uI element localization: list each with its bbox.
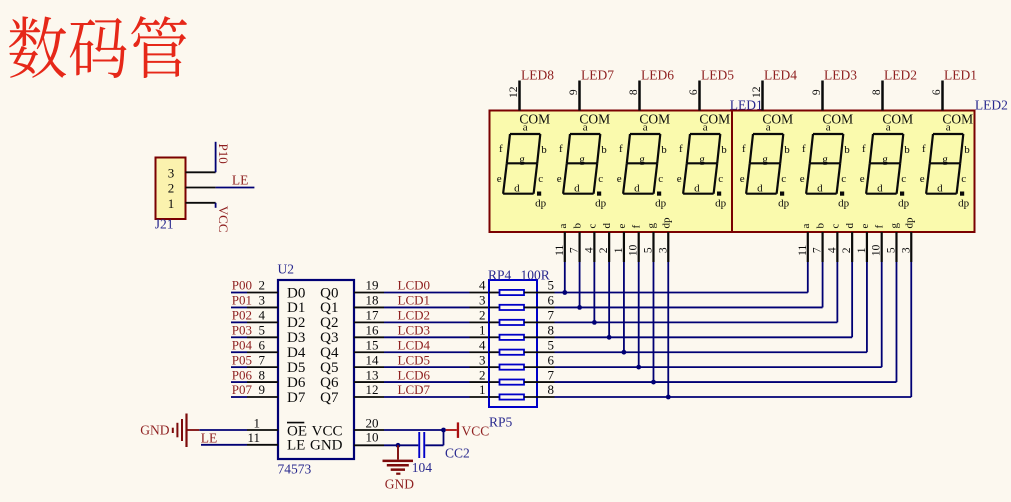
svg-text:Q3: Q3 [320, 330, 338, 346]
svg-text:LCD0: LCD0 [398, 278, 431, 293]
svg-text:GND: GND [310, 437, 343, 453]
junction segment d [607, 335, 612, 340]
title text 数码管 [9, 16, 187, 78]
7-seg digit LED3 [800, 68, 857, 210]
svg-text:17: 17 [366, 308, 380, 323]
display module LED2 (4-digit 7-seg block) [732, 111, 975, 233]
junction VCC node [441, 428, 446, 433]
svg-text:15: 15 [366, 337, 379, 352]
wire bus segment dp horizontal [555, 396, 912, 398]
svg-text:e: e [616, 224, 628, 229]
svg-text:e: e [859, 224, 871, 229]
svg-text:d: d [844, 223, 856, 229]
junction segment f [636, 365, 641, 370]
svg-text:D6: D6 [287, 375, 306, 391]
svg-text:7: 7 [548, 308, 555, 323]
svg-text:D7: D7 [287, 390, 306, 406]
wire LE [216, 187, 255, 189]
segment pin a of box 1 (pin 11) [554, 224, 569, 263]
svg-text:3: 3 [168, 165, 175, 180]
svg-text:e: e [677, 173, 682, 185]
svg-text:b: b [601, 144, 607, 156]
svg-text:d: d [817, 183, 823, 195]
svg-text:16: 16 [366, 322, 380, 337]
svg-text:2: 2 [259, 278, 266, 293]
svg-text:7: 7 [812, 247, 824, 253]
svg-text:LCD1: LCD1 [398, 293, 431, 308]
svg-text:11: 11 [797, 245, 809, 256]
power ground GND (left) [140, 414, 199, 448]
svg-text:d: d [757, 183, 763, 195]
svg-text:5: 5 [259, 322, 266, 337]
svg-text:d: d [601, 223, 613, 229]
svg-text:4: 4 [479, 337, 486, 352]
wire segment dp box1 vertical [667, 262, 669, 397]
svg-text:LED2: LED2 [975, 98, 1008, 113]
svg-text:9: 9 [568, 89, 580, 95]
svg-text:5: 5 [885, 247, 897, 253]
svg-text:a: a [766, 122, 771, 134]
svg-text:LED6: LED6 [641, 68, 674, 83]
svg-text:10: 10 [871, 244, 883, 256]
resistor RP4 element 1 [489, 278, 555, 295]
resistor RP4 element 5 [489, 337, 555, 354]
svg-text:f: f [559, 143, 563, 155]
svg-text:c: c [901, 173, 906, 185]
svg-text:dp: dp [903, 217, 915, 229]
pin D1 (pin 3) with net label P01 [231, 293, 278, 308]
svg-text:VCC: VCC [462, 424, 490, 439]
wire segment g box1 vertical [652, 262, 654, 382]
svg-text:14: 14 [366, 352, 380, 367]
svg-text:LED3: LED3 [824, 68, 857, 83]
svg-text:dp: dp [535, 197, 547, 209]
svg-text:a: a [583, 122, 588, 134]
svg-text:b: b [844, 144, 850, 156]
svg-text:GND: GND [140, 423, 169, 438]
svg-text:LED5: LED5 [701, 68, 734, 83]
svg-text:f: f [802, 143, 806, 155]
svg-text:2: 2 [168, 181, 175, 196]
wire segment b box2 vertical [822, 262, 824, 307]
svg-text:P10: P10 [216, 144, 231, 164]
svg-text:10: 10 [628, 244, 640, 256]
wire bus segment c horizontal [555, 321, 838, 323]
svg-text:a: a [826, 122, 831, 134]
svg-text:Q4: Q4 [320, 345, 339, 361]
svg-text:dp: dp [838, 197, 850, 209]
segment pin e of box 1 (pin 1) [613, 224, 628, 263]
svg-text:104: 104 [412, 460, 433, 475]
svg-text:P04: P04 [232, 337, 253, 352]
svg-text:LED1: LED1 [730, 98, 763, 113]
segment pin dp of box 2 (pin 3) [900, 217, 915, 262]
pin Q4 (pin 15) wire to RP4, net LCD4 [354, 337, 489, 352]
wire bus segment d horizontal [555, 336, 853, 338]
svg-text:c: c [658, 173, 663, 185]
net label VCC [216, 206, 231, 233]
svg-text:3: 3 [259, 293, 266, 308]
svg-text:LED1: LED1 [944, 68, 977, 83]
7-seg digit LED4 [740, 68, 797, 210]
svg-text:11: 11 [554, 245, 566, 256]
svg-text:74573: 74573 [278, 462, 312, 477]
svg-text:P00: P00 [232, 278, 252, 293]
resistor RP4 element 8 [489, 382, 555, 399]
svg-text:4: 4 [826, 247, 838, 253]
svg-text:2: 2 [841, 247, 853, 253]
svg-text:6: 6 [259, 337, 266, 352]
svg-text:1: 1 [479, 382, 486, 397]
svg-text:b: b [661, 144, 667, 156]
svg-text:e: e [740, 173, 745, 185]
svg-text:3: 3 [479, 352, 486, 367]
J21 pin 3 [186, 171, 216, 173]
wire segment c box1 vertical [593, 262, 595, 322]
pin GND (pin 10) [354, 430, 384, 446]
svg-text:b: b [784, 144, 790, 156]
svg-text:8: 8 [871, 89, 883, 95]
svg-text:6: 6 [548, 293, 555, 308]
resistor network RP4 100R outline [488, 268, 550, 430]
svg-text:RP4: RP4 [488, 268, 512, 283]
pin D0 (pin 2) with net label P00 [231, 278, 278, 293]
wire bus segment f horizontal [555, 366, 882, 368]
svg-text:b: b [572, 223, 584, 229]
svg-text:g: g [888, 223, 900, 229]
svg-text:20: 20 [366, 415, 379, 430]
svg-text:VCC: VCC [216, 206, 231, 233]
svg-text:f: f [742, 143, 746, 155]
segment pin dp of box 1 (pin 3) [657, 217, 672, 262]
pin Q0 (pin 19) wire to RP4, net LCD0 [354, 278, 489, 293]
svg-text:D2: D2 [287, 315, 305, 331]
svg-text:a: a [557, 224, 569, 229]
segment pin c of box 2 (pin 4) [826, 224, 841, 263]
svg-text:c: c [829, 224, 841, 229]
J21 pin 2 [186, 187, 216, 189]
junction segment a [562, 290, 567, 295]
net label LE (bottom) [201, 430, 218, 445]
svg-text:4: 4 [259, 308, 266, 323]
wire LE (bottom) [201, 444, 247, 446]
svg-text:a: a [800, 224, 812, 229]
pin VCC (pin 20) [354, 415, 384, 430]
svg-text:e: e [617, 173, 622, 185]
junction segment b [577, 305, 582, 310]
pin Q1 (pin 18) wire to RP4, net LCD1 [354, 293, 489, 308]
svg-text:3: 3 [479, 293, 486, 308]
resistor RP4 element 3 [489, 308, 555, 325]
svg-text:g: g [822, 153, 828, 165]
svg-text:P03: P03 [232, 322, 252, 337]
svg-text:d: d [574, 183, 580, 195]
wire segment c box2 vertical [836, 262, 838, 322]
svg-text:dp: dp [595, 197, 607, 209]
wire segment a box2 vertical [807, 262, 809, 293]
svg-text:e: e [557, 173, 562, 185]
svg-text:Q7: Q7 [320, 390, 339, 406]
7-seg digit LED8 [497, 68, 554, 210]
svg-text:D1: D1 [287, 300, 305, 316]
svg-text:100R: 100R [521, 268, 550, 283]
segment pin f of box 1 (pin 10) [628, 225, 643, 263]
display module LED1 (4-digit 7-seg block) [490, 111, 733, 233]
segment pin b of box 2 (pin 7) [812, 223, 827, 263]
svg-text:P06: P06 [232, 367, 253, 382]
svg-text:e: e [800, 173, 805, 185]
junction segment g [651, 380, 656, 385]
svg-text:P07: P07 [232, 382, 253, 397]
svg-text:9: 9 [259, 382, 266, 397]
svg-text:18: 18 [366, 293, 379, 308]
svg-text:LCD3: LCD3 [398, 322, 431, 337]
svg-text:c: c [586, 224, 598, 229]
svg-text:c: c [718, 173, 723, 185]
svg-text:J21: J21 [155, 217, 174, 232]
net label P10 [216, 144, 231, 164]
segment pin g of box 2 (pin 5) [885, 223, 900, 263]
svg-text:3: 3 [657, 247, 669, 253]
svg-text:c: c [781, 173, 786, 185]
svg-text:12: 12 [366, 382, 379, 397]
wire segment e box2 vertical [866, 262, 868, 352]
svg-text:g: g [579, 153, 585, 165]
wire VCC stub [215, 203, 217, 208]
svg-text:e: e [920, 173, 925, 185]
svg-text:b: b [815, 223, 827, 229]
junction segment c [592, 320, 597, 325]
segment pin d of box 1 (pin 2) [598, 223, 613, 263]
pin Q6 (pin 13) wire to RP4, net LCD6 [354, 367, 489, 382]
wire bus segment b horizontal [555, 306, 823, 308]
svg-text:c: c [841, 173, 846, 185]
svg-text:d: d [937, 183, 943, 195]
svg-text:U2: U2 [278, 262, 295, 277]
svg-text:CC2: CC2 [445, 446, 470, 461]
pin D7 (pin 9) with net label P07 [231, 382, 278, 397]
svg-text:a: a [523, 122, 528, 134]
svg-text:e: e [860, 173, 865, 185]
svg-text:8: 8 [548, 382, 555, 397]
wire segment f box1 vertical [638, 262, 640, 367]
wire OE to GND [199, 429, 247, 431]
svg-text:f: f [499, 143, 503, 155]
wire GND net [384, 444, 418, 446]
resistor RP4 element 6 [489, 352, 555, 369]
pin Q3 (pin 16) wire to RP4, net LCD3 [354, 322, 489, 337]
wire segment a box1 vertical [564, 262, 566, 293]
svg-text:4: 4 [583, 247, 595, 253]
svg-text:b: b [904, 144, 910, 156]
svg-text:LCD4: LCD4 [398, 337, 431, 352]
wire bus segment a horizontal [555, 292, 808, 294]
power VCC symbol [446, 422, 490, 438]
wire segment dp box2 vertical [910, 262, 912, 397]
svg-text:1: 1 [168, 196, 175, 211]
junction segment dp [666, 395, 671, 400]
svg-text:g: g [942, 153, 948, 165]
svg-text:LED8: LED8 [521, 68, 554, 83]
svg-text:D4: D4 [287, 345, 306, 361]
svg-text:a: a [886, 122, 891, 134]
segment pin g of box 1 (pin 5) [642, 223, 657, 263]
svg-text:LCD5: LCD5 [398, 352, 431, 367]
svg-text:a: a [703, 122, 708, 134]
segment pin e of box 2 (pin 1) [856, 224, 871, 263]
wire segment b box1 vertical [579, 262, 581, 307]
svg-text:b: b [964, 144, 970, 156]
svg-text:6: 6 [931, 89, 943, 95]
svg-text:7: 7 [548, 367, 555, 382]
svg-text:c: c [538, 173, 543, 185]
segment pin d of box 2 (pin 2) [841, 223, 856, 263]
svg-text:2: 2 [479, 308, 486, 323]
svg-text:7: 7 [259, 352, 266, 367]
svg-text:6: 6 [688, 89, 700, 95]
svg-text:d: d [514, 183, 520, 195]
svg-text:13: 13 [366, 367, 379, 382]
segment pin c of box 1 (pin 4) [583, 224, 598, 263]
svg-text:8: 8 [259, 367, 266, 382]
svg-text:Q0: Q0 [320, 285, 338, 301]
svg-text:P02: P02 [232, 308, 252, 323]
svg-text:a: a [643, 122, 648, 134]
J21 pin 1 [186, 202, 216, 204]
svg-text:8: 8 [628, 89, 640, 95]
7-seg digit LED5 [677, 68, 734, 210]
svg-text:LE: LE [232, 172, 249, 187]
junction GND node [396, 443, 401, 448]
svg-text:RP5: RP5 [489, 415, 513, 430]
svg-text:f: f [631, 225, 643, 229]
svg-text:d: d [694, 183, 700, 195]
svg-text:5: 5 [642, 247, 654, 253]
svg-text:dp: dp [958, 197, 970, 209]
svg-text:d: d [877, 183, 883, 195]
svg-text:LCD6: LCD6 [398, 367, 431, 382]
capacitor CC2 104 [412, 430, 470, 475]
svg-text:5: 5 [548, 278, 555, 293]
wire segment d box2 vertical [851, 262, 853, 337]
svg-text:6: 6 [548, 352, 555, 367]
svg-text:c: c [961, 173, 966, 185]
resistor RP4 element 7 [489, 367, 555, 384]
7-seg digit LED2 [860, 68, 917, 210]
svg-text:Q6: Q6 [320, 375, 339, 391]
svg-text:f: f [679, 143, 683, 155]
svg-text:e: e [497, 173, 502, 185]
junction segment e [622, 350, 627, 355]
svg-text:LE: LE [201, 430, 218, 445]
wire segment g box2 vertical [895, 262, 897, 382]
pin D6 (pin 8) with net label P06 [231, 367, 278, 382]
7-seg digit LED6 [617, 68, 674, 210]
segment pin a of box 2 (pin 11) [797, 224, 812, 263]
earth ground below pin 10 [383, 445, 415, 491]
resistor RP4 element 4 [489, 322, 555, 339]
svg-text:Q5: Q5 [320, 360, 338, 376]
wire segment f box2 vertical [881, 262, 883, 367]
svg-text:dp: dp [660, 217, 672, 229]
svg-text:LE: LE [287, 437, 305, 453]
pin D2 (pin 4) with net label P02 [231, 308, 278, 323]
svg-text:dp: dp [898, 197, 910, 209]
svg-text:5: 5 [548, 337, 555, 352]
wire bus segment e horizontal [555, 351, 867, 353]
svg-text:g: g [639, 153, 645, 165]
wire bus segment g horizontal [555, 381, 897, 383]
resistor RP4 element 2 [489, 293, 555, 310]
pin D5 (pin 7) with net label P05 [231, 352, 278, 367]
svg-text:9: 9 [811, 89, 823, 95]
svg-text:1: 1 [254, 415, 261, 430]
segment pin b of box 1 (pin 7) [569, 223, 584, 263]
svg-text:P05: P05 [232, 352, 252, 367]
svg-text:g: g [762, 153, 768, 165]
net label LE [232, 172, 249, 187]
svg-text:dp: dp [715, 197, 727, 209]
svg-text:f: f [874, 225, 886, 229]
svg-text:d: d [634, 183, 640, 195]
svg-text:dp: dp [655, 197, 667, 209]
svg-text:8: 8 [548, 322, 555, 337]
svg-text:1: 1 [613, 247, 625, 253]
connector J21 [155, 158, 186, 232]
svg-text:LCD2: LCD2 [398, 308, 431, 323]
wire P10 [215, 142, 217, 173]
wire segment e box1 vertical [623, 262, 625, 352]
svg-text:12: 12 [751, 86, 763, 98]
designator LED1 [730, 98, 763, 113]
svg-text:b: b [541, 144, 547, 156]
pin Q7 (pin 12) wire to RP4, net LCD7 [354, 382, 489, 397]
7-seg digit LED7 [557, 68, 614, 210]
svg-text:7: 7 [569, 247, 581, 253]
svg-text:11: 11 [247, 430, 260, 445]
svg-text:D5: D5 [287, 360, 305, 376]
svg-text:f: f [619, 143, 623, 155]
svg-text:1: 1 [479, 322, 486, 337]
svg-text:3: 3 [900, 247, 912, 253]
7-seg digit LED1 [920, 68, 977, 210]
pin OE (pin 1) [247, 415, 278, 430]
svg-text:D3: D3 [287, 330, 305, 346]
svg-text:b: b [721, 144, 727, 156]
pin D3 (pin 5) with net label P03 [231, 322, 278, 337]
svg-text:Q1: Q1 [320, 300, 338, 316]
svg-text:LCD7: LCD7 [398, 382, 431, 397]
pin D4 (pin 6) with net label P04 [231, 337, 278, 352]
IC U2 74573 body [278, 262, 355, 477]
svg-text:a: a [946, 122, 951, 134]
svg-text:g: g [699, 153, 705, 165]
designator LED2 [975, 98, 1008, 113]
segment pin f of box 2 (pin 10) [871, 225, 886, 263]
svg-text:1: 1 [856, 247, 868, 253]
pin Q2 (pin 17) wire to RP4, net LCD2 [354, 308, 489, 323]
pin Q5 (pin 14) wire to RP4, net LCD5 [354, 352, 489, 367]
svg-text:12: 12 [508, 86, 520, 98]
pin LE (pin 11) [247, 430, 278, 445]
svg-text:f: f [862, 143, 866, 155]
svg-text:P01: P01 [232, 293, 252, 308]
wire segment d box1 vertical [608, 262, 610, 337]
svg-text:LED7: LED7 [581, 68, 614, 83]
svg-text:LED4: LED4 [764, 68, 797, 83]
svg-text:g: g [519, 153, 525, 165]
svg-text:GND: GND [385, 477, 414, 492]
